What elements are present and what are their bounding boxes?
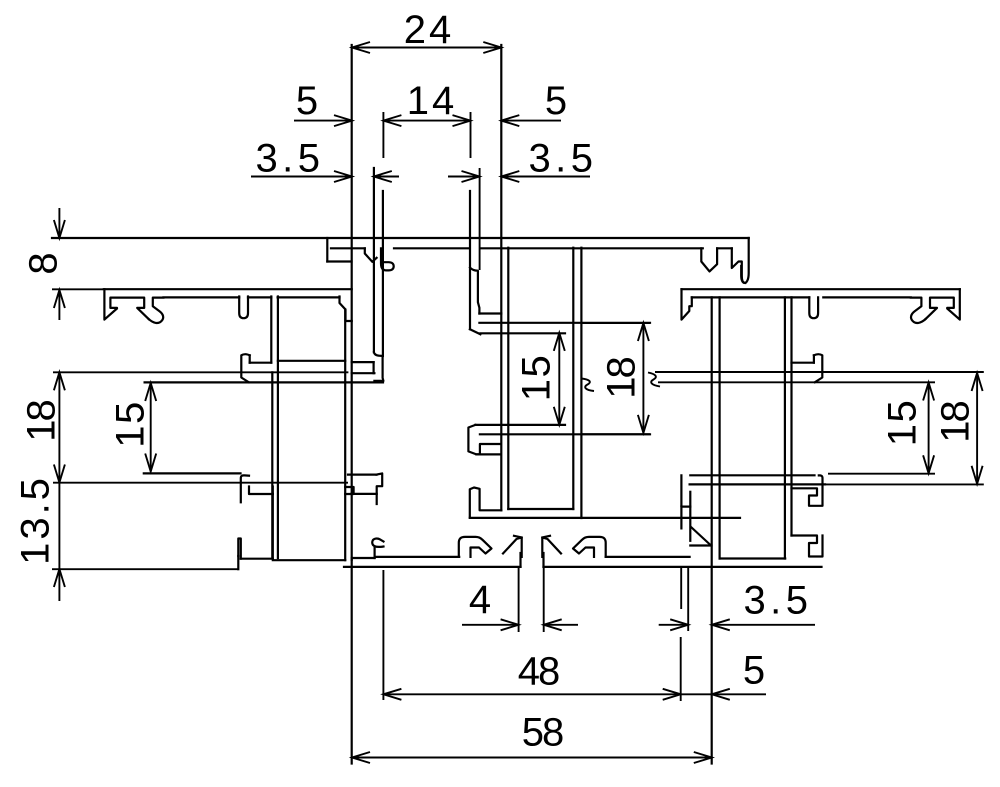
break mark on middle box wall	[582, 379, 595, 392]
dimension 3.5 (upper left)	[251, 136, 399, 182]
left profile inner top line	[163, 296, 339, 298]
head track fin 2 (V hook)	[701, 248, 717, 271]
dimension 13.5 (left)	[13, 475, 65, 601]
svg-text:15: 15	[108, 400, 152, 448]
dimension 18 (left)	[19, 372, 65, 482]
right profile lower right hooks	[792, 475, 823, 556]
left profile bottom notch	[237, 556, 239, 569]
tube pocket lower-left	[348, 473, 382, 504]
left profile right end lip	[340, 297, 352, 561]
left profile boss at wall	[241, 354, 271, 382]
interlock hook K1 upper	[470, 191, 650, 334]
right profile inner top line	[692, 296, 911, 298]
extension lines 8 left	[52, 288, 103, 290]
dimension 3.5 (bottom right)	[659, 578, 815, 630]
svg-text:14: 14	[407, 79, 458, 123]
dimension 5 (top left)	[294, 79, 352, 126]
extension line y=482.5 left	[53, 482, 348, 484]
central tube right wall + extension	[500, 45, 502, 510]
svg-text:3.5: 3.5	[743, 578, 812, 622]
middle box right wall	[572, 248, 574, 509]
svg-text:24: 24	[404, 8, 455, 52]
tube hook mid-left	[374, 352, 384, 381]
extension line y=473.7 right	[828, 473, 935, 475]
svg-text:15: 15	[514, 354, 558, 402]
bottom track glider 1	[459, 537, 492, 557]
dimension 15 (right)	[880, 383, 934, 474]
right profile lower left lip	[681, 475, 690, 541]
interlock hook K2 middle	[468, 425, 650, 455]
middle box lower shelf	[470, 517, 740, 519]
bottom track recess verticals	[521, 553, 544, 567]
head profile right end with curl	[741, 238, 749, 283]
svg-text:58: 58	[522, 710, 563, 754]
bottom track glider 3	[542, 536, 561, 557]
bottom track glider 4	[573, 537, 606, 557]
left profile glass line lower	[145, 381, 383, 383]
left profile wall pair	[271, 297, 278, 559]
left profile left wall with dovetail slot	[104, 289, 148, 319]
dimension 4 (bottom)	[462, 578, 578, 631]
right profile wall pair 1	[712, 297, 720, 763]
extension line x=518.6 bottom	[518, 568, 520, 632]
extension line x=383.4 top	[382, 112, 384, 158]
right profile left wall with lip	[682, 289, 692, 319]
central tube left wall + extensions	[351, 45, 353, 764]
bottom track glider 2	[503, 536, 522, 557]
extension line x=543.7 bottom	[543, 568, 545, 632]
svg-text:18: 18	[599, 358, 643, 399]
left profile box bottom shelf	[278, 360, 345, 362]
right profile lower shelf	[690, 475, 825, 484]
extension line y=372 left	[53, 371, 348, 373]
dimension 58 (bottom)	[352, 710, 712, 763]
extension line x=688.2 bottom	[687, 568, 689, 631]
right profile top edge	[682, 288, 960, 290]
left profile hook B (rounded foot)	[149, 298, 164, 323]
svg-text:18: 18	[19, 401, 63, 442]
dimension 18 (middle)	[582, 323, 651, 434]
tube pocket upper-left	[352, 362, 375, 373]
svg-text:18: 18	[933, 402, 977, 443]
svg-text:5: 5	[296, 79, 318, 123]
head track fin 3 (rounded)	[732, 248, 745, 283]
middle box left wall	[507, 248, 509, 509]
head profile inner line	[331, 247, 732, 249]
extension line y=484.4 right	[825, 483, 984, 485]
dimension 8 (left)	[21, 208, 65, 320]
extension line x=470.5 top	[470, 112, 472, 158]
left profile lower box right lip	[345, 487, 353, 494]
left profile lower box	[238, 494, 345, 560]
tube inner wall x=373.9	[373, 168, 375, 352]
dimension 15 (left inner)	[108, 383, 156, 472]
middle box bottom	[508, 508, 573, 510]
bottom edge center	[344, 566, 521, 568]
bottom edge right section	[544, 566, 822, 568]
right profile diagonal mark	[690, 527, 711, 546]
right profile hook B mirrored (rounded foot)	[911, 298, 926, 323]
tube bottom step	[352, 557, 460, 558]
tube small hook lower	[372, 539, 383, 558]
dimension 14 (top)	[383, 79, 470, 126]
middle box outer right wall	[580, 248, 582, 518]
dimension 15 (middle)	[514, 333, 565, 425]
extension line y=569 left	[52, 568, 238, 570]
dimension 5 (top right)	[501, 79, 567, 126]
extension line x=383.4 bottom	[382, 570, 384, 700]
interlock hook K3 lower	[470, 488, 502, 518]
right profile lower box bottoms	[720, 557, 786, 559]
left profile lower box left hook	[241, 475, 273, 502]
extension line y=382 right	[658, 381, 935, 383]
svg-text:48: 48	[518, 649, 559, 693]
svg-text:3.5: 3.5	[255, 136, 324, 180]
right profile wall pair 2	[785, 297, 792, 558]
break mark right section line	[648, 373, 660, 387]
svg-text:13.5: 13.5	[13, 475, 57, 565]
extension line x=680.7 bottom	[680, 567, 683, 701]
head profile top edge + extension	[52, 237, 749, 239]
dimension 24 (top)	[352, 8, 501, 53]
svg-text:4: 4	[469, 578, 491, 622]
left profile top edge	[104, 288, 352, 290]
right profile U channel	[809, 297, 818, 318]
bottom surface right of track	[606, 556, 690, 558]
svg-text:15: 15	[880, 399, 924, 447]
head track fin 1 (hook into sash)	[365, 248, 394, 270]
right profile right wall with dovetail slot	[925, 289, 959, 319]
extension line x=479.6 top	[479, 168, 481, 270]
dimension 3.5 (upper right)	[448, 136, 598, 182]
svg-text:5: 5	[743, 648, 765, 692]
svg-text:8: 8	[21, 252, 65, 274]
svg-text:3.5: 3.5	[528, 136, 597, 180]
left profile glass pocket bottom line	[144, 472, 241, 474]
right profile boss at wall	[792, 354, 823, 382]
head profile left end	[327, 238, 351, 262]
left profile U channel	[239, 297, 248, 319]
svg-text:5: 5	[545, 79, 567, 123]
tube inner wall x=382.9	[382, 191, 384, 356]
dimension 48 and 5 (bottom)	[383, 648, 766, 700]
extension line y=372 right	[655, 371, 984, 373]
dimension 18 (right)	[933, 373, 982, 484]
